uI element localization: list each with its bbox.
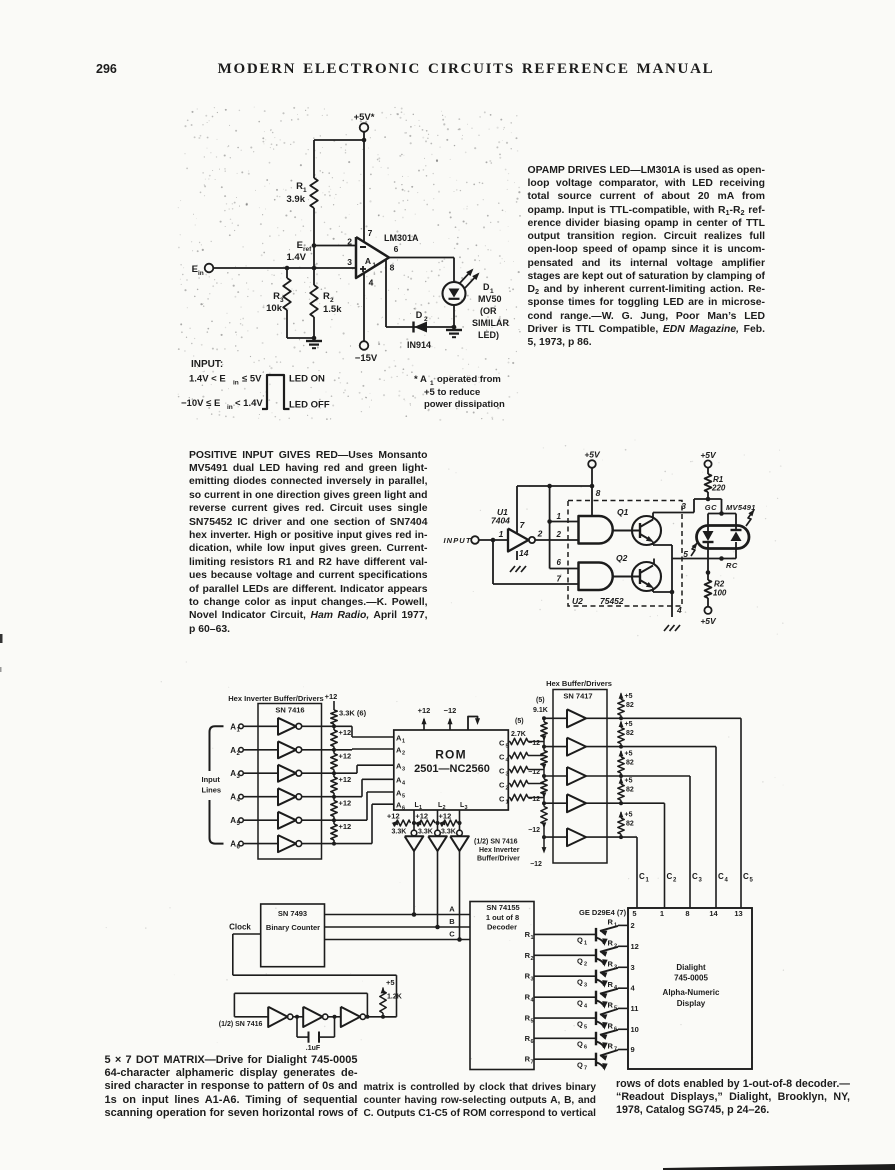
svg-text:Decoder: Decoder xyxy=(487,923,517,932)
svg-text:Binary Counter: Binary Counter xyxy=(266,923,320,932)
svg-text:3: 3 xyxy=(347,257,352,267)
svg-text:1: 1 xyxy=(614,922,617,928)
svg-text:D: D xyxy=(416,310,423,320)
svg-text:Hex Inverter: Hex Inverter xyxy=(479,847,520,854)
svg-text:5: 5 xyxy=(584,1024,587,1030)
svg-text:Hex Inverter Buffer/Drivers: Hex Inverter Buffer/Drivers xyxy=(228,694,323,703)
svg-text:Hex Buffer/Drivers: Hex Buffer/Drivers xyxy=(546,679,612,688)
svg-text:R: R xyxy=(608,1021,614,1030)
svg-text:3.3K: 3.3K xyxy=(441,829,456,836)
svg-text:(OR: (OR xyxy=(480,306,497,316)
svg-text:B: B xyxy=(449,917,455,926)
svg-text:11: 11 xyxy=(631,1004,639,1013)
svg-text:2: 2 xyxy=(556,530,562,539)
svg-text:R: R xyxy=(608,1042,614,1051)
svg-text:3: 3 xyxy=(531,977,534,983)
svg-text:+5: +5 xyxy=(625,693,633,700)
svg-text:+5: +5 xyxy=(625,721,633,728)
svg-text:1: 1 xyxy=(402,739,405,745)
svg-text:Q: Q xyxy=(577,1040,583,1049)
svg-text:1: 1 xyxy=(303,187,307,194)
svg-text:+5V*: +5V* xyxy=(354,112,375,123)
svg-text:+12: +12 xyxy=(339,822,352,831)
svg-text:C: C xyxy=(499,795,505,804)
svg-text:2: 2 xyxy=(614,943,617,949)
svg-text:10: 10 xyxy=(631,1025,639,1034)
svg-text:7: 7 xyxy=(557,575,562,584)
svg-text:LM301A: LM301A xyxy=(384,233,419,243)
svg-text:−10V ≤ E: −10V ≤ E xyxy=(181,398,220,409)
svg-text:7: 7 xyxy=(584,1066,587,1072)
svg-text:Q: Q xyxy=(577,978,583,987)
svg-text:+5V: +5V xyxy=(584,450,601,460)
svg-text:6: 6 xyxy=(394,244,399,254)
svg-text:14: 14 xyxy=(519,548,529,558)
svg-text:Q: Q xyxy=(577,1019,583,1028)
svg-text:3: 3 xyxy=(614,964,617,970)
svg-text:+12: +12 xyxy=(418,706,431,715)
svg-text:1: 1 xyxy=(557,512,562,521)
svg-text:2: 2 xyxy=(347,237,352,247)
svg-text:+5: +5 xyxy=(386,978,395,987)
svg-text:7: 7 xyxy=(614,1047,617,1053)
svg-text:(5): (5) xyxy=(536,697,545,704)
svg-text:2: 2 xyxy=(673,878,677,884)
svg-text:Q2: Q2 xyxy=(616,553,628,563)
svg-text:4: 4 xyxy=(402,781,406,787)
svg-text:82: 82 xyxy=(626,821,634,828)
svg-text:1: 1 xyxy=(506,800,509,806)
svg-text:+5 to reduce: +5 to reduce xyxy=(424,387,480,398)
svg-text:8: 8 xyxy=(685,909,689,918)
svg-text:Display: Display xyxy=(677,999,706,1008)
svg-text:LED OFF: LED OFF xyxy=(289,400,330,411)
svg-text:operated from: operated from xyxy=(437,374,501,385)
svg-text:R: R xyxy=(323,291,330,302)
svg-text:5: 5 xyxy=(683,549,688,559)
svg-text:3.9k: 3.9k xyxy=(287,194,306,205)
svg-text:SIMILAR: SIMILAR xyxy=(472,318,509,328)
svg-text:−12: −12 xyxy=(528,827,540,834)
svg-text:+12: +12 xyxy=(339,775,352,784)
svg-text:1: 1 xyxy=(646,878,650,884)
svg-text:5: 5 xyxy=(632,909,636,918)
svg-text:3.3K: 3.3K xyxy=(392,829,407,836)
svg-text:14: 14 xyxy=(709,909,718,918)
svg-text:≤ 5V: ≤ 5V xyxy=(242,374,262,385)
svg-text:220: 220 xyxy=(711,484,726,493)
svg-text:2501—NC2560: 2501—NC2560 xyxy=(414,763,490,775)
svg-text:in: in xyxy=(233,380,239,387)
svg-text:C: C xyxy=(639,872,645,881)
svg-text:SN 7493: SN 7493 xyxy=(278,909,307,918)
svg-text:4: 4 xyxy=(584,1004,588,1010)
svg-text:A: A xyxy=(230,840,236,849)
svg-text:2: 2 xyxy=(506,786,509,792)
svg-text:3: 3 xyxy=(584,983,587,989)
svg-text:in: in xyxy=(227,404,233,411)
svg-text:1.2K: 1.2K xyxy=(387,994,402,1001)
svg-text:1.4V: 1.4V xyxy=(286,252,306,263)
svg-text:in: in xyxy=(198,270,204,277)
svg-text:1: 1 xyxy=(660,909,664,918)
svg-text:1 out of 8: 1 out of 8 xyxy=(486,913,519,922)
svg-text:RC: RC xyxy=(726,561,738,570)
svg-text:4: 4 xyxy=(676,605,682,615)
svg-text:2: 2 xyxy=(584,962,587,968)
svg-text:3.3K (6): 3.3K (6) xyxy=(339,709,367,718)
svg-text:+12: +12 xyxy=(339,728,352,737)
svg-text:Q: Q xyxy=(577,999,583,1008)
svg-text:5: 5 xyxy=(614,1005,617,1011)
svg-text:C: C xyxy=(743,872,749,881)
svg-text:MV5491: MV5491 xyxy=(726,503,756,512)
svg-text:+5: +5 xyxy=(625,812,633,819)
svg-text:Lines: Lines xyxy=(202,786,222,795)
svg-text:MV50: MV50 xyxy=(478,294,502,304)
svg-text:82: 82 xyxy=(626,787,634,794)
svg-text:C: C xyxy=(499,767,505,776)
svg-text:4: 4 xyxy=(631,984,636,993)
svg-text:7: 7 xyxy=(531,1060,534,1066)
svg-text:A: A xyxy=(230,793,236,802)
svg-text:6: 6 xyxy=(557,558,562,567)
svg-text:3: 3 xyxy=(699,878,703,884)
svg-text:Q: Q xyxy=(577,957,583,966)
svg-text:+5V: +5V xyxy=(700,616,717,626)
svg-text:U2: U2 xyxy=(572,596,583,606)
svg-text:−15V: −15V xyxy=(355,353,378,364)
svg-text:IN914: IN914 xyxy=(407,340,431,350)
svg-text:745-0005: 745-0005 xyxy=(674,974,708,983)
svg-text:4: 4 xyxy=(369,278,374,288)
svg-text:< 1.4V: < 1.4V xyxy=(235,398,263,409)
svg-text:ROM: ROM xyxy=(435,748,467,762)
svg-text:1: 1 xyxy=(430,380,434,387)
svg-text:3: 3 xyxy=(465,805,468,811)
svg-text:2: 2 xyxy=(531,956,534,962)
svg-text:A: A xyxy=(365,256,371,266)
svg-text:6: 6 xyxy=(614,1026,617,1032)
svg-text:C: C xyxy=(667,872,673,881)
svg-text:+5: +5 xyxy=(625,751,633,758)
svg-text:+12: +12 xyxy=(339,752,352,761)
svg-text:−12: −12 xyxy=(444,706,457,715)
svg-text:82: 82 xyxy=(626,760,634,767)
svg-text:8: 8 xyxy=(390,263,395,273)
svg-text:Buffer/Driver: Buffer/Driver xyxy=(477,856,520,863)
svg-text:(5): (5) xyxy=(515,718,524,725)
svg-text:Input: Input xyxy=(202,775,221,784)
svg-text:C: C xyxy=(499,781,505,790)
svg-text:2: 2 xyxy=(402,751,405,757)
svg-text:100: 100 xyxy=(713,589,727,598)
svg-text:* A: * A xyxy=(414,374,427,385)
svg-text:A: A xyxy=(449,905,455,914)
svg-text:2: 2 xyxy=(443,805,446,811)
svg-text:.1uF: .1uF xyxy=(306,1045,321,1052)
svg-text:2: 2 xyxy=(424,316,428,323)
svg-text:−12: −12 xyxy=(530,861,542,868)
svg-text:+12: +12 xyxy=(387,812,400,821)
svg-text:9.1K: 9.1K xyxy=(533,707,548,714)
svg-text:5: 5 xyxy=(402,794,405,800)
svg-text:Q: Q xyxy=(577,1061,583,1070)
svg-text:C: C xyxy=(692,872,698,881)
svg-text:7: 7 xyxy=(520,520,526,530)
svg-text:13: 13 xyxy=(734,909,742,918)
svg-text:SN 74155: SN 74155 xyxy=(486,903,519,912)
svg-text:+5V: +5V xyxy=(700,450,717,460)
svg-text:+12: +12 xyxy=(325,692,338,701)
svg-text:1: 1 xyxy=(584,941,587,947)
svg-text:2.7K: 2.7K xyxy=(511,731,526,738)
svg-text:C: C xyxy=(449,930,455,939)
svg-text:power dissipation: power dissipation xyxy=(424,399,505,410)
svg-text:6: 6 xyxy=(402,806,405,812)
svg-text:12: 12 xyxy=(631,942,639,951)
svg-text:1.4V < E: 1.4V < E xyxy=(189,374,226,385)
svg-text:3: 3 xyxy=(631,963,635,972)
svg-text:3: 3 xyxy=(402,767,405,773)
svg-text:Q1: Q1 xyxy=(617,507,629,517)
svg-text:A: A xyxy=(230,746,236,755)
svg-text:SN 7417: SN 7417 xyxy=(563,692,592,701)
svg-text:A: A xyxy=(230,722,236,731)
svg-text:INPUT:: INPUT: xyxy=(191,359,223,370)
svg-text:+5: +5 xyxy=(625,778,633,785)
svg-text:1.5k: 1.5k xyxy=(323,304,342,315)
svg-text:8: 8 xyxy=(596,488,601,498)
svg-text:Q: Q xyxy=(577,936,583,945)
svg-text:82: 82 xyxy=(626,702,634,709)
svg-text:5: 5 xyxy=(750,878,754,884)
svg-text:5: 5 xyxy=(531,1019,534,1025)
svg-text:6: 6 xyxy=(531,1039,534,1045)
svg-text:+12: +12 xyxy=(339,799,352,808)
svg-text:9: 9 xyxy=(631,1045,635,1054)
svg-text:D: D xyxy=(483,282,490,292)
svg-text:R: R xyxy=(608,1000,614,1009)
svg-text:R: R xyxy=(608,980,614,989)
svg-text:SN 7416: SN 7416 xyxy=(275,706,304,715)
svg-text:3: 3 xyxy=(506,772,509,778)
svg-text:A: A xyxy=(230,769,236,778)
svg-text:2: 2 xyxy=(537,529,543,539)
svg-text:1: 1 xyxy=(419,805,422,811)
svg-text:(1/2) SN 7416: (1/2) SN 7416 xyxy=(219,1021,263,1028)
svg-text:C: C xyxy=(499,753,505,762)
svg-text:+12: +12 xyxy=(415,812,428,821)
svg-text:+12: +12 xyxy=(439,812,452,821)
svg-text:7: 7 xyxy=(368,228,373,238)
svg-text:Clock: Clock xyxy=(229,923,251,932)
svg-text:C: C xyxy=(499,739,505,748)
svg-text:LED ON: LED ON xyxy=(289,374,325,385)
svg-text:2: 2 xyxy=(631,921,635,930)
svg-text:R: R xyxy=(608,959,614,968)
svg-text:82: 82 xyxy=(626,730,634,737)
svg-text:10k: 10k xyxy=(266,303,283,314)
svg-text:GC: GC xyxy=(705,503,717,512)
svg-text:Dialight: Dialight xyxy=(676,963,706,972)
svg-text:R: R xyxy=(608,938,614,947)
svg-text:(1/2) SN 7416: (1/2) SN 7416 xyxy=(474,839,518,846)
svg-text:4: 4 xyxy=(725,878,729,884)
svg-text:75452: 75452 xyxy=(600,596,624,606)
svg-text:C: C xyxy=(718,872,724,881)
svg-text:A: A xyxy=(230,816,236,825)
svg-text:3: 3 xyxy=(681,501,686,511)
svg-text:GE D29E4 (7): GE D29E4 (7) xyxy=(579,908,627,917)
svg-text:6: 6 xyxy=(584,1045,587,1051)
svg-text:INPUT: INPUT xyxy=(444,536,472,545)
svg-text:3.3K: 3.3K xyxy=(418,829,433,836)
svg-text:R: R xyxy=(608,917,614,926)
svg-text:2: 2 xyxy=(330,297,334,304)
svg-text:1: 1 xyxy=(499,529,504,539)
svg-text:R2: R2 xyxy=(714,580,725,589)
svg-text:1: 1 xyxy=(531,935,534,941)
svg-text:Alpha-Numeric: Alpha-Numeric xyxy=(663,988,720,997)
svg-text:7404: 7404 xyxy=(491,516,510,526)
svg-text:LED): LED) xyxy=(478,330,499,340)
svg-text:5: 5 xyxy=(506,744,509,750)
